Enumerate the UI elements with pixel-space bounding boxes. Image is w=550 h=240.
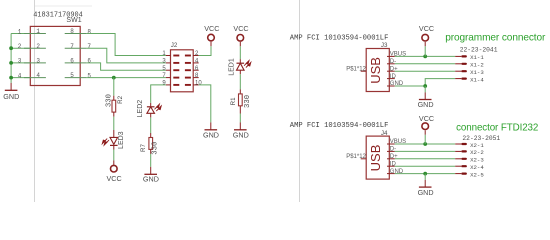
wire J2 pin10 to GND bbox=[199, 85, 211, 123]
supply symbol VCC above J4 bbox=[419, 114, 434, 135]
J2 pin numbers left bbox=[162, 51, 166, 86]
frame divider line left bbox=[34, 0, 36, 202]
svg-text:VCC: VCC bbox=[233, 24, 248, 33]
wire junction to R2 bbox=[113, 78, 115, 96]
svg-text:22-23-2051: 22-23-2051 bbox=[462, 135, 500, 142]
supply symbol VCC above J3 bbox=[419, 24, 434, 46]
svg-text:1: 1 bbox=[18, 28, 22, 35]
wire J3 D+ to X1-3 bbox=[395, 70, 455, 72]
svg-text:8: 8 bbox=[70, 28, 74, 35]
wire SW1 pin4 to bus bbox=[11, 77, 30, 79]
wire SW1 pin2 to bus bbox=[11, 47, 30, 49]
LED1 diode bbox=[237, 59, 245, 74]
wire J4 D+ to X2-3 bbox=[395, 158, 455, 160]
svg-text:3: 3 bbox=[36, 58, 40, 65]
J4 pin stubs right bbox=[387, 144, 395, 174]
pin arrow X1-1 bbox=[455, 54, 484, 61]
wire R2 to LED3 bbox=[113, 112, 115, 117]
svg-text:X1-4: X1-4 bbox=[470, 76, 484, 83]
SW1 pin 2 line bbox=[24, 47, 46, 49]
svg-text:X2-2: X2-2 bbox=[470, 149, 484, 156]
wire J4 ID to X2-4 bbox=[395, 165, 455, 167]
supply symbol VCC above LED1 bbox=[233, 24, 248, 46]
USB connector J3 body bbox=[366, 49, 389, 92]
wire J4 GND to X2-5 bbox=[395, 173, 455, 175]
svg-text:GND: GND bbox=[143, 175, 159, 184]
wire J2 pin2 to VCC bbox=[199, 46, 211, 55]
J3 pin stubs right bbox=[387, 56, 395, 86]
svg-text:GND: GND bbox=[3, 92, 19, 101]
J4 pin P$1 stub left bbox=[361, 158, 367, 160]
LED1 light arrows bbox=[244, 61, 251, 68]
svg-text:GND: GND bbox=[418, 188, 434, 197]
wire VCC to J4 VBUS bbox=[424, 135, 426, 144]
svg-text:5: 5 bbox=[87, 72, 91, 79]
svg-text:AMP FCI 10103594-0001LF: AMP FCI 10103594-0001LF bbox=[290, 35, 389, 43]
wire J3 VBUS to X1-1 bbox=[395, 55, 455, 57]
junction bus pin2 bbox=[9, 46, 13, 50]
svg-text:R2: R2 bbox=[117, 95, 124, 103]
resistor R2 bbox=[112, 100, 116, 112]
pin arrow X2-4 bbox=[455, 164, 484, 171]
svg-text:7: 7 bbox=[87, 43, 91, 50]
svg-text:LED2: LED2 bbox=[137, 100, 144, 118]
SW1 pin 8 line bbox=[65, 33, 87, 35]
LED2 diode bbox=[147, 103, 155, 118]
wire J2 pin9 to LED2 bbox=[151, 85, 166, 103]
svg-text:4: 4 bbox=[18, 72, 22, 79]
junction R2 tap on pin5 wire bbox=[112, 76, 116, 80]
wire J4 VBUS to X2-1 bbox=[395, 143, 455, 145]
J3 pin P$1 stub left bbox=[361, 70, 367, 72]
svg-text:X1-1: X1-1 bbox=[470, 54, 484, 61]
svg-text:AMP FCI 10103594-0001LF: AMP FCI 10103594-0001LF bbox=[290, 122, 389, 130]
wire SW1 pin1 to bus bbox=[11, 33, 30, 35]
J2 contact bars bbox=[173, 56, 191, 85]
svg-text:P$1*12: P$1*12 bbox=[346, 154, 366, 160]
junction J3 GND bbox=[423, 84, 427, 88]
wire SW1 pin7 to J2 pin3 bbox=[87, 48, 166, 63]
svg-text:connector FTDI232: connector FTDI232 bbox=[456, 122, 538, 133]
pin arrow X2-1 bbox=[455, 142, 484, 149]
pin arrow X1-4 bbox=[455, 76, 484, 83]
svg-text:3: 3 bbox=[18, 58, 22, 65]
svg-text:VCC: VCC bbox=[204, 24, 219, 33]
junction J3 VBUS VCC bbox=[423, 55, 427, 59]
svg-text:VCC: VCC bbox=[107, 174, 122, 183]
junction J4 VBUS VCC bbox=[423, 142, 427, 146]
svg-text:LED3: LED3 bbox=[118, 131, 125, 149]
svg-text:R1: R1 bbox=[230, 97, 237, 105]
svg-text:22-23-2041: 22-23-2041 bbox=[460, 46, 498, 53]
J2 pin stubs left bbox=[166, 56, 171, 85]
J4 pin labels bbox=[390, 139, 406, 175]
svg-text:VCC: VCC bbox=[419, 24, 434, 33]
ground symbol GND under R1 bbox=[233, 122, 249, 139]
wire SW1 pin3 to bus bbox=[11, 62, 30, 64]
ground symbol GND under J3 bbox=[418, 92, 434, 109]
svg-text:8: 8 bbox=[87, 28, 91, 35]
svg-text:X1-2: X1-2 bbox=[470, 62, 484, 69]
LED3 light arrows bbox=[102, 139, 109, 146]
svg-text:330: 330 bbox=[244, 95, 252, 108]
svg-text:X1-3: X1-3 bbox=[470, 69, 484, 76]
svg-text:USB: USB bbox=[368, 57, 383, 84]
svg-text:X2-1: X2-1 bbox=[470, 142, 484, 149]
svg-text:X2-4: X2-4 bbox=[470, 164, 484, 171]
SW1 pin 4 line bbox=[24, 77, 46, 79]
J2 pin stubs right bbox=[193, 56, 199, 85]
SW1 pin 1 line bbox=[24, 33, 46, 35]
SW1 pin 7 line bbox=[65, 47, 87, 49]
J3 pin labels bbox=[390, 52, 406, 88]
svg-text:330: 330 bbox=[105, 94, 113, 107]
svg-text:programmer connector: programmer connector bbox=[445, 33, 546, 44]
wire SW1 pin8 to J2 pin1 bbox=[87, 34, 166, 56]
wire VCC to LED1 bbox=[239, 46, 241, 59]
frame divider line right bbox=[299, 0, 301, 202]
ground symbol GND under SW1 bbox=[3, 83, 19, 101]
svg-text:2: 2 bbox=[18, 43, 22, 50]
resistor R1 bbox=[239, 94, 243, 106]
pin arrow X2-2 bbox=[455, 149, 484, 156]
wire SW1 pin6 to J2 pin5 bbox=[87, 63, 166, 70]
ground symbol GND under R7 bbox=[143, 167, 159, 184]
USB connector J4 body bbox=[366, 136, 389, 179]
wire J3 GND down bbox=[424, 86, 426, 92]
svg-text:5: 5 bbox=[70, 72, 74, 79]
faint frame artifact top bbox=[35, 5, 93, 7]
svg-text:7: 7 bbox=[70, 43, 74, 50]
svg-text:GND: GND bbox=[203, 130, 219, 139]
SW1 pin 3 line bbox=[24, 62, 46, 64]
pin arrow X1-2 bbox=[455, 62, 484, 69]
wire VCC to J3 VBUS bbox=[424, 46, 426, 56]
ground symbol GND under J2 bbox=[203, 122, 219, 139]
svg-text:LED1: LED1 bbox=[228, 58, 235, 76]
LED2 light arrows bbox=[155, 104, 162, 111]
wire R7 to GND bbox=[150, 149, 152, 154]
svg-text:R7: R7 bbox=[140, 143, 147, 151]
svg-text:X2-3: X2-3 bbox=[470, 157, 484, 164]
junction bus pin3 bbox=[9, 61, 13, 65]
wire J4 GND down bbox=[424, 174, 426, 180]
svg-text:SW1: SW1 bbox=[66, 17, 81, 24]
wire J3 D- to X1-2 bbox=[395, 63, 455, 65]
wire R1 to GND bbox=[239, 106, 241, 114]
wire J3 GND to X1-4 bbox=[395, 79, 455, 86]
wire LED2 to R7 bbox=[150, 117, 152, 133]
svg-text:330: 330 bbox=[152, 142, 160, 155]
J2 pin numbers right bbox=[195, 51, 202, 86]
junction bus pin4 bbox=[9, 76, 13, 80]
wire SW1 pin5 to J2 pin7 bbox=[87, 77, 166, 79]
wire LED1 to R1 bbox=[239, 74, 241, 89]
resistor R7 bbox=[149, 138, 153, 150]
svg-text:J2: J2 bbox=[171, 42, 178, 49]
svg-text:GND: GND bbox=[418, 100, 434, 109]
header J2 body bbox=[171, 50, 194, 92]
svg-text:X2-5: X2-5 bbox=[470, 171, 484, 178]
svg-text:GND: GND bbox=[233, 130, 249, 139]
svg-text:6: 6 bbox=[87, 58, 91, 65]
wire GND bus vertical left bbox=[10, 34, 12, 83]
svg-text:2: 2 bbox=[36, 43, 40, 50]
SW1 pin 5 line bbox=[65, 77, 87, 79]
svg-text:4: 4 bbox=[36, 72, 40, 79]
svg-text:VCC: VCC bbox=[419, 114, 434, 123]
SW1 pin 6 line bbox=[65, 62, 87, 64]
svg-text:10: 10 bbox=[195, 81, 202, 87]
svg-text:1: 1 bbox=[36, 28, 40, 35]
switch SW1 body bbox=[30, 26, 80, 85]
svg-text:USB: USB bbox=[368, 145, 383, 172]
ground symbol GND under J4 bbox=[418, 180, 434, 197]
supply symbol VCC under LED3 bbox=[107, 160, 122, 183]
wire LED3 to VCC bbox=[113, 150, 115, 161]
pin arrow X2-5 bbox=[455, 171, 484, 178]
pin arrow X1-3 bbox=[455, 69, 484, 76]
pin arrow X2-3 bbox=[455, 157, 484, 164]
supply symbol VCC above J2 bbox=[204, 24, 219, 46]
wire J4 D- to X2-2 bbox=[395, 150, 455, 152]
svg-text:ID: ID bbox=[390, 74, 397, 80]
svg-text:P$1*12: P$1*12 bbox=[346, 66, 366, 72]
LED3 diode bbox=[110, 130, 118, 150]
junction J4 GND bbox=[423, 172, 427, 176]
svg-text:6: 6 bbox=[70, 58, 74, 65]
